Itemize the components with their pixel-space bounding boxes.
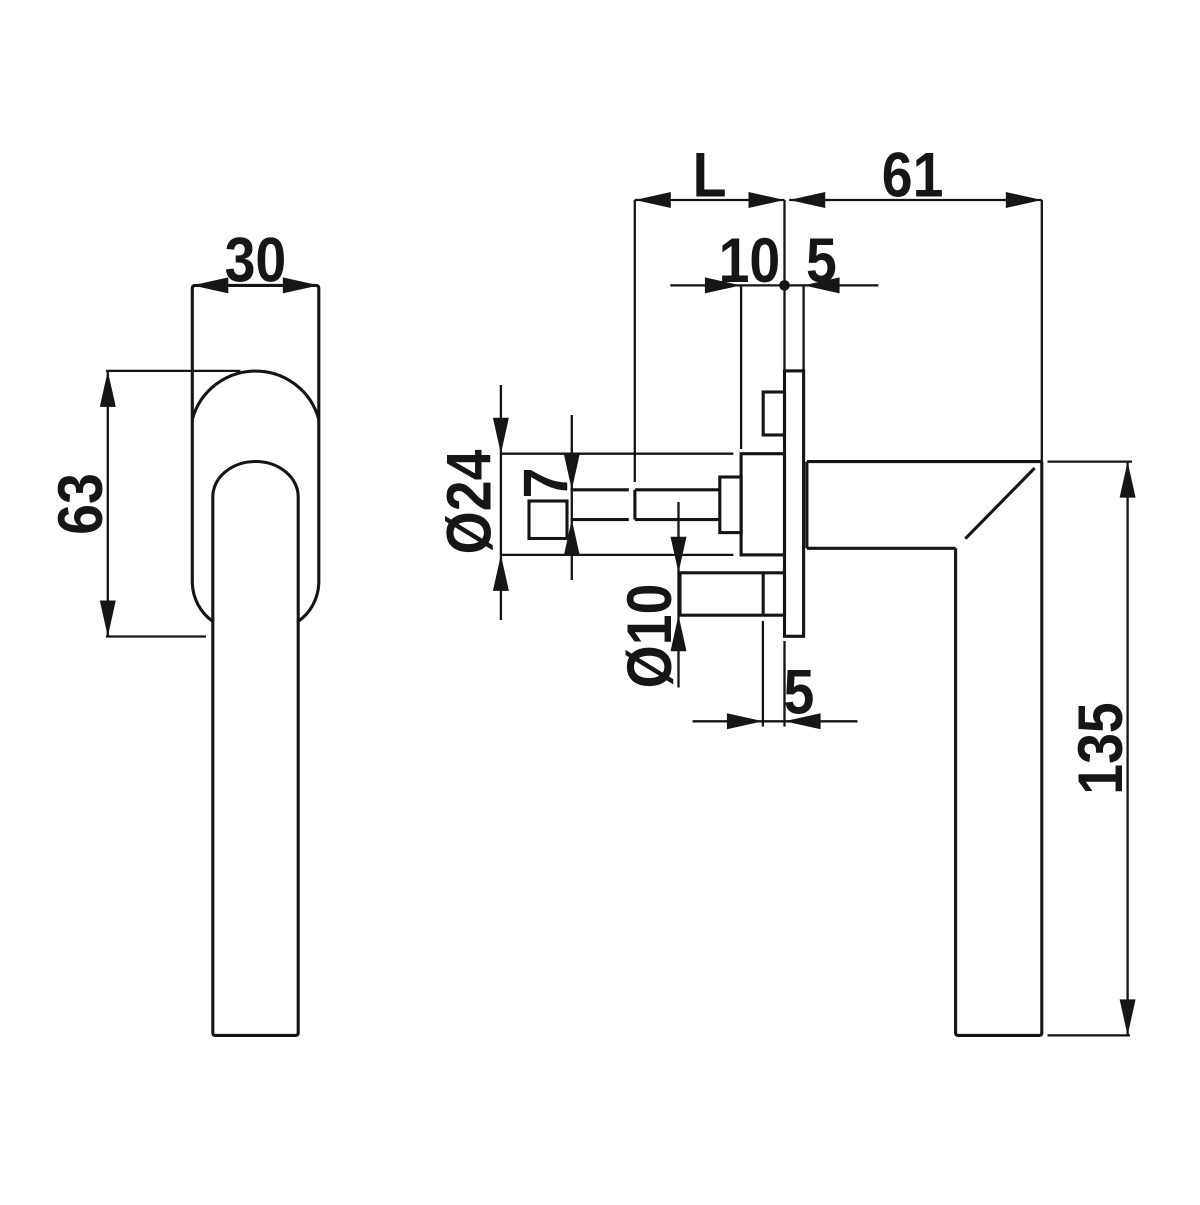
svg-text:Ø10: Ø10	[614, 584, 685, 689]
right view: spindle bar right segment with end cap	[635, 490, 720, 520]
svg-text:Ø24: Ø24	[433, 450, 504, 555]
right view: top fixing lug	[763, 392, 784, 435]
dim 135 line	[1126, 462, 1128, 1036]
dim L arrows	[635, 192, 785, 208]
right view: O10 bearing boss	[680, 573, 785, 615]
dim 63 extension top	[106, 370, 240, 372]
dim O24 extension lines	[501, 454, 734, 555]
svg-text:L: L	[693, 139, 727, 210]
svg-text:7: 7	[510, 468, 581, 499]
dim 10-5 line	[670, 284, 878, 286]
right view: spindle square end	[529, 501, 567, 539]
dim 5 arrow	[804, 277, 840, 293]
svg-text:10: 10	[719, 225, 781, 296]
dim 7 arrows	[564, 454, 580, 556]
dim L line	[635, 199, 785, 201]
svg-text:61: 61	[882, 139, 944, 210]
svg-text:63: 63	[45, 473, 116, 535]
right view: handle neck bottom edge	[807, 547, 956, 550]
dim 5 bottom line	[693, 720, 858, 722]
right view: grip outline	[956, 462, 1042, 1036]
dim O10 arrows	[671, 537, 687, 651]
dim 63 extension bottom	[106, 635, 206, 637]
right view: spindle collar	[720, 477, 741, 533]
right view: neck bearing block O24	[741, 454, 784, 555]
dim 5 extension	[802, 285, 804, 371]
svg-text:5: 5	[783, 656, 814, 727]
dim 135 arrows	[1120, 462, 1136, 1036]
left view: handle outer contour with grip bar	[192, 285, 318, 1035]
dim O10 line	[677, 502, 679, 688]
dim 135 extension top	[1048, 460, 1133, 462]
dim O24 arrows	[493, 418, 509, 591]
right view: boss/lug divider	[762, 573, 765, 615]
left view: neck dome arc	[192, 371, 318, 419]
right view: spindle bar left segment	[571, 490, 629, 520]
dim O24 line	[500, 385, 502, 620]
dim 135 extension bottom	[1048, 1034, 1131, 1036]
dim 10 extension	[740, 285, 742, 449]
svg-text:5: 5	[806, 225, 837, 296]
dim L extension left	[634, 200, 636, 482]
dim 61 extension right	[1041, 200, 1043, 462]
dim 61 arrows	[789, 192, 1042, 208]
right view: corner chamfer line	[965, 468, 1034, 539]
dim junction dot	[779, 280, 790, 291]
svg-text:30: 30	[225, 224, 287, 295]
dim L extension right / plate face	[783, 200, 785, 371]
svg-text:135: 135	[1065, 702, 1136, 794]
dim 10 arrow	[705, 277, 741, 293]
dim 61 line	[789, 199, 1042, 201]
right view: rosette plate	[785, 371, 804, 636]
dim 5 bottom extensions	[763, 621, 785, 727]
dim 30 arrows	[192, 277, 318, 293]
left view: grip bar dome arc with sides	[213, 461, 298, 622]
right view: handle neck top edge and grip top	[807, 460, 1042, 463]
dim 5 bottom arrows	[727, 713, 821, 729]
dim 63 arrows	[100, 371, 116, 637]
right view: neck left cap	[805, 462, 808, 549]
dim 7 line	[571, 415, 573, 580]
dim 63 line	[107, 371, 109, 637]
